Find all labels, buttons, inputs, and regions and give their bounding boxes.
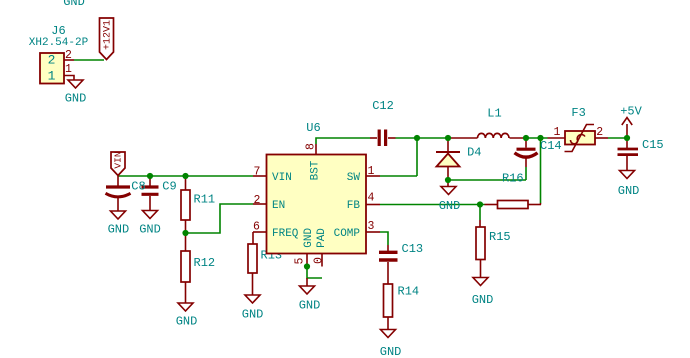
svg-text:1: 1 [368,165,375,178]
svg-text:R11: R11 [194,193,216,207]
svg-text:C12: C12 [372,99,394,113]
svg-text:GND: GND [176,314,198,328]
svg-text:3: 3 [368,220,375,233]
svg-text:4: 4 [368,192,375,205]
svg-text:FREQ: FREQ [272,228,299,240]
svg-text:1: 1 [48,68,56,83]
svg-text:C14: C14 [540,139,562,153]
svg-text:1: 1 [65,63,72,76]
svg-text:J6: J6 [51,24,65,38]
svg-text:BST: BST [310,160,322,180]
svg-text:SW: SW [347,172,361,184]
svg-text:GND: GND [439,199,461,213]
svg-text:FB: FB [347,200,361,212]
svg-text:5: 5 [294,257,307,264]
svg-text:+12V1: +12V1 [103,20,114,50]
svg-text:GND: GND [472,293,494,307]
svg-text:GND: GND [380,345,402,358]
svg-text:R14: R14 [398,284,420,298]
svg-text:GND: GND [139,222,161,236]
svg-text:GND: GND [65,92,87,106]
svg-text:GND: GND [63,0,85,9]
svg-text:6: 6 [253,220,260,233]
svg-text:D4: D4 [467,146,481,160]
svg-text:2: 2 [48,53,56,68]
svg-text:C13: C13 [402,242,424,256]
svg-text:1: 1 [554,126,561,139]
svg-text:GND: GND [303,228,315,248]
svg-text:COMP: COMP [334,228,361,240]
svg-text:2: 2 [254,194,261,207]
svg-text:2: 2 [65,49,72,62]
svg-text:U6: U6 [306,121,320,135]
svg-text:2: 2 [596,126,603,139]
svg-text:PAD: PAD [316,228,328,248]
svg-text:F3: F3 [571,106,585,120]
svg-text:EN: EN [272,200,285,212]
svg-text:GND: GND [618,184,640,198]
svg-text:+5V: +5V [620,104,642,118]
svg-text:L1: L1 [487,107,501,121]
svg-text:8: 8 [305,143,318,150]
svg-text:GND: GND [299,298,321,312]
svg-text:7: 7 [254,166,261,179]
svg-text:C8: C8 [131,179,145,193]
svg-text:C15: C15 [642,138,664,152]
svg-text:R12: R12 [194,256,216,270]
svg-text:R15: R15 [489,230,511,244]
svg-text:XH2.54-2P: XH2.54-2P [29,37,89,49]
svg-text:R16: R16 [502,172,524,186]
svg-text:C9: C9 [162,179,176,193]
svg-text:GND: GND [108,222,130,236]
svg-text:0: 0 [313,257,326,264]
svg-text:GND: GND [242,308,264,322]
svg-text:VIN: VIN [272,172,292,184]
svg-text:VIN: VIN [113,151,124,168]
